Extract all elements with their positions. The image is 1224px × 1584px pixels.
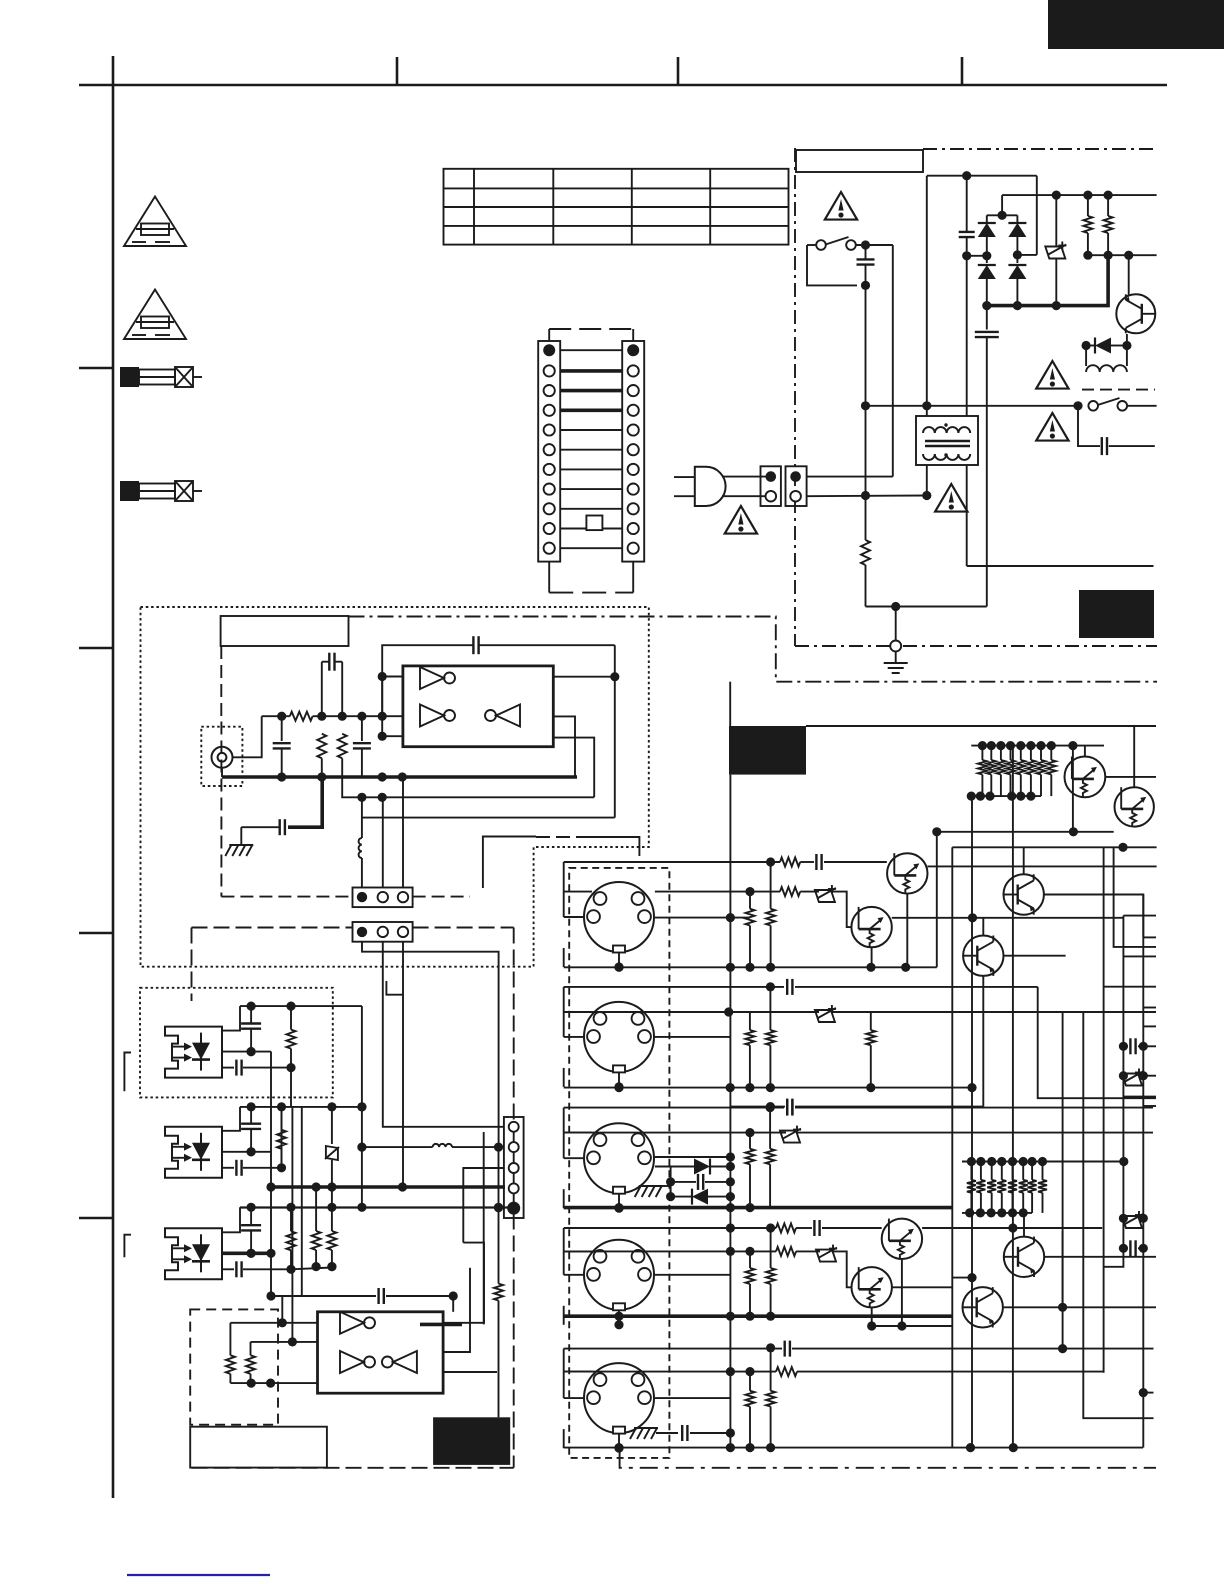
amp rail A [932,827,1113,967]
ch1 bottom wire [564,963,937,972]
signal row wire [342,777,615,818]
zone tick left 2 [79,647,113,650]
ribbon bottom bracket [549,562,633,593]
resistor R32 [780,887,800,896]
J6 ground stub [614,1433,623,1453]
control rail 2 [240,1203,514,1212]
right vertical E [1058,1012,1154,1418]
thermistor TH61 [1119,1069,1156,1086]
thick return wire [987,255,1108,305]
bracket mark B2 [124,1235,131,1258]
capacitor C5 [241,777,322,835]
resistor bank RA1 [967,741,1104,801]
black label box lower [433,1417,510,1465]
warning triangle W3 [1036,413,1068,441]
resistor bank RA2 [962,1157,1128,1218]
thermistor TH41 [796,1245,852,1288]
u2 bias wire [230,1379,317,1388]
main board dash border [192,928,514,1468]
J5 ground stub [614,1310,623,1330]
input board dotted border [141,607,649,967]
ch4 top wire [564,1223,776,1232]
wire cn6 pin3 [463,1168,504,1243]
page border vertical rule [112,56,115,1498]
din connector J4 [584,1123,654,1193]
ch5 mid wire [564,1367,1104,1398]
J2 left wires [564,862,592,967]
din connector J5 [584,1240,654,1310]
q1 collector wire [928,865,1157,867]
opto PC1 mid wire [222,1047,271,1056]
transformer primary leads [927,176,967,416]
warning triangle W4 [935,484,967,512]
J3 left wires [564,987,592,1087]
zone tick left 1 [79,367,113,370]
thermistor TH31 [800,885,851,927]
q3 base feed [1023,847,1025,875]
thermistor TH62 [1119,1211,1148,1228]
zone tick left 4 [79,1217,113,1220]
chassis ground G3 [634,1427,658,1429]
ch2 top wire [564,979,1156,1098]
opto detector PC3 [165,1228,222,1279]
ch3 mid wire [564,1126,1153,1143]
ch2 mid wire [564,1005,1156,1037]
resistor R31 [780,858,800,867]
resistor R104 [861,540,870,607]
wire psu left bus [865,285,867,540]
ribbon cable connector CN3 [538,341,644,562]
caution fuse triangle F1 [124,197,186,247]
capacitor C11 [241,1006,261,1056]
lower-left bottom dash border [192,1467,514,1469]
redacted title block [1048,0,1224,49]
connector CN1 [722,466,781,506]
diode D102 [1082,334,1132,354]
transistor Q9 [1004,1237,1044,1277]
capacitor C21 [222,1060,291,1076]
ch4 bottom wire [564,1312,953,1321]
bus 302 [301,1107,303,1296]
input board label box [221,616,349,722]
capacitor C101 [857,240,875,290]
u2 input wires [278,1250,318,1347]
select board border stub [483,837,640,889]
resistor R33 [746,892,755,968]
q7 q8 wires [867,1223,1102,1330]
ch3 resistors [746,1108,775,1208]
coupling wire row [266,1288,457,1312]
right stub group 2 [1123,1097,1156,1106]
resistor R3 [338,734,347,777]
capacitor C62 [1119,1240,1148,1256]
tuner board dash border [221,722,470,897]
din connector J2 [584,882,654,952]
connector CN6 [504,1117,524,1218]
capacitor C103 [975,306,999,607]
thermistor TH1 [325,1107,339,1187]
zone tick top 3 [961,57,964,85]
corner bus 483 [420,1132,484,1324]
opto PC2 top rail [222,1102,367,1131]
capacitor C2 [273,716,291,777]
ic U2 [318,1312,444,1393]
amp rail B [952,843,1156,1448]
opto bus 2 [290,1067,292,1107]
J4 ground stub [614,1193,623,1213]
zone tick top 2 [677,57,680,85]
capacitor C33 [666,1167,735,1197]
black box feed wire [729,682,731,726]
resistor R34 [766,862,775,967]
J4 left wires [564,1108,592,1209]
rca jack J1 [201,727,242,786]
ch4 resistors [745,1223,775,1316]
resistor R2 [317,734,326,777]
separator dash-dot line [349,617,1158,682]
capacitor C32 [730,1099,983,1115]
fuse symbol F2 [120,481,139,501]
amp bottom dash border [620,1452,1156,1468]
din connector J3 [584,1002,654,1072]
ch5 top wire [564,1341,1154,1357]
opto detector PC2 [165,1127,222,1178]
chassis ground G2 [635,1186,671,1197]
thick control rail [266,1182,505,1191]
capacitor C12 [241,1107,261,1157]
transistor Q8 [852,1267,892,1307]
parts table [444,169,789,245]
capacitor C13 [241,1207,261,1258]
connector CN4 leads [383,777,403,888]
q4 wires [983,918,1065,1107]
zone tick top 1 [396,57,399,85]
right bus 1 [1103,847,1105,1373]
bracket mark B1 [124,1053,131,1092]
resistor R12 [277,1107,286,1173]
transistor Q4 [963,936,1003,976]
amp bus C [971,796,973,1448]
resistors R21 R22 [312,1187,337,1271]
psu V+ rail [1002,191,1157,200]
resistor R103 [1104,195,1113,260]
relay coil L101 [1086,346,1127,373]
earth ground [884,652,908,674]
transformer secondary leads [922,465,967,566]
ic U1 [403,666,553,747]
opto PC2 mid wire [222,1147,271,1156]
resistors R24 R25 [226,1323,293,1383]
opto detector PC1 [165,1027,222,1078]
resistor R41 [776,1224,796,1233]
diode D31 [655,1159,735,1175]
caution fuse triangle F2 [124,290,186,340]
page border horizontal rule [79,84,1167,87]
capacitor C23 [222,1261,291,1277]
J6 left wires [564,1349,592,1449]
resistor R42 [776,1247,796,1256]
zone tick left 3 [79,932,113,935]
ch1 mid wire [655,887,780,922]
cn5 jog [386,981,403,995]
input ground bus [222,768,577,782]
ch3 bottom wire [564,1203,953,1212]
capacitor C31 [800,854,887,870]
J5 left wires [564,1228,592,1325]
transformer T101 [916,416,978,465]
ch5 bottom wire [564,1443,1143,1452]
resistor R11 [286,1006,295,1072]
ch2 bottom wire [564,1083,977,1092]
darlington feed wires [1073,726,1156,832]
opto PC3 top rail [222,1203,514,1233]
resistor R13 [286,1207,295,1274]
wire rca to rail [233,716,262,757]
resistor R1 [290,712,313,721]
q2 output wire [892,913,1124,922]
ch2 resistors [745,987,875,1088]
opto unit dotted box [140,988,333,1098]
amp bus D [1012,746,1014,1448]
dashed sub box [190,1309,278,1424]
bus 292 [291,1107,293,1250]
ac plug P1 [674,467,726,506]
ch3 top wire [564,1100,1153,1116]
capacitor C3 [353,716,371,777]
transistor Q101 [1116,294,1155,333]
label box lower left [190,1427,327,1468]
cn5 wires [362,942,504,1187]
transistor Q10 [963,1287,1003,1327]
u2 output wires [443,1243,497,1372]
power board label box [796,150,923,172]
darlington Q6 [1115,787,1154,826]
inductor L1 [359,797,362,887]
opto PC1 top rail [222,1002,362,1031]
ground node wire [866,602,987,641]
opto3 bottom wire [291,1262,337,1271]
capacitor C51 [656,1425,735,1441]
transistor Q1 [887,853,927,893]
inductor L2 [433,1143,504,1152]
din column dotted box [569,868,669,1458]
wire row 1147 [362,1146,433,1148]
transistor Q3 [1004,874,1044,914]
capacitor C41 [796,1220,882,1236]
ch4 mid wire [564,1247,776,1275]
psu output wire [967,565,1154,567]
mid junction row [892,1273,977,1287]
bridge rectifier D101 [978,195,1027,310]
resistor R51 [776,1367,797,1376]
opto bus 3 [281,1107,283,1167]
q10 wire [1003,1231,1156,1312]
diode D32 [666,1189,735,1205]
warning triangle W5 [725,506,757,534]
wire switch to transformer [892,245,894,477]
din connector J6 [584,1363,654,1433]
ch1 top wire [564,857,780,866]
q1 q2 emitter wires [872,894,908,968]
J3 ground stub [614,1072,623,1092]
ac neutral wire [807,491,927,500]
earth terminal [890,641,901,652]
signal bus A [361,1006,363,1208]
q9 wire [1024,1212,1156,1257]
ic input wires [378,672,403,741]
wire q101 collector [1128,255,1130,295]
power supply board border [795,148,1157,646]
switch S2 [1073,398,1156,411]
ac live wire [807,476,893,478]
capacitor C102 [959,176,987,261]
amp black label box [729,726,806,775]
amp top rail [806,725,1156,727]
connector CN5 [353,922,413,942]
fusible resistor R101 [1045,195,1066,310]
right stub group [1104,847,1156,1027]
ch5 resistors [745,1349,775,1448]
psu black label box [1079,590,1154,638]
resistor R102 [1083,195,1092,260]
bus 316 [315,1187,317,1231]
right bus 3 [1139,895,1154,1448]
warning triangle W1 [825,192,857,220]
transistor Q7 [882,1219,922,1259]
ribbon top bracket [549,329,633,341]
feedback capacitor C4 [382,636,619,716]
J2 ground stub [614,952,623,972]
chassis ground G1 [225,827,253,856]
capacitor C1 [322,653,342,717]
psu mid rail [1088,251,1157,260]
wire psu top node [927,171,1037,255]
darlington Q5 [1065,757,1106,798]
right bus 2 [1104,916,1124,1267]
ic output wires [553,677,615,818]
connector CN4 [353,888,413,908]
capacitor C104 [1078,406,1155,455]
amp left bus [729,775,731,1448]
transistor Q2 [851,907,891,947]
opto PC3 mid wire [222,1249,276,1258]
input rail [262,712,403,721]
ch3 center wire [655,1152,735,1161]
q3 emitter wire [1044,895,1143,938]
resistor R23 [494,1147,503,1417]
switch S1 [807,237,893,285]
connector CN2 [786,466,807,506]
capacitor C22 [222,1160,282,1176]
footer rule [127,1574,270,1576]
warning triangle W2 [1036,361,1068,389]
capacitor C61 [1119,1038,1156,1054]
psu hot rail [861,401,1078,410]
fuse symbol F1 [120,367,139,387]
opto bus 1 [270,1052,272,1297]
psu inner dash [1082,389,1155,391]
